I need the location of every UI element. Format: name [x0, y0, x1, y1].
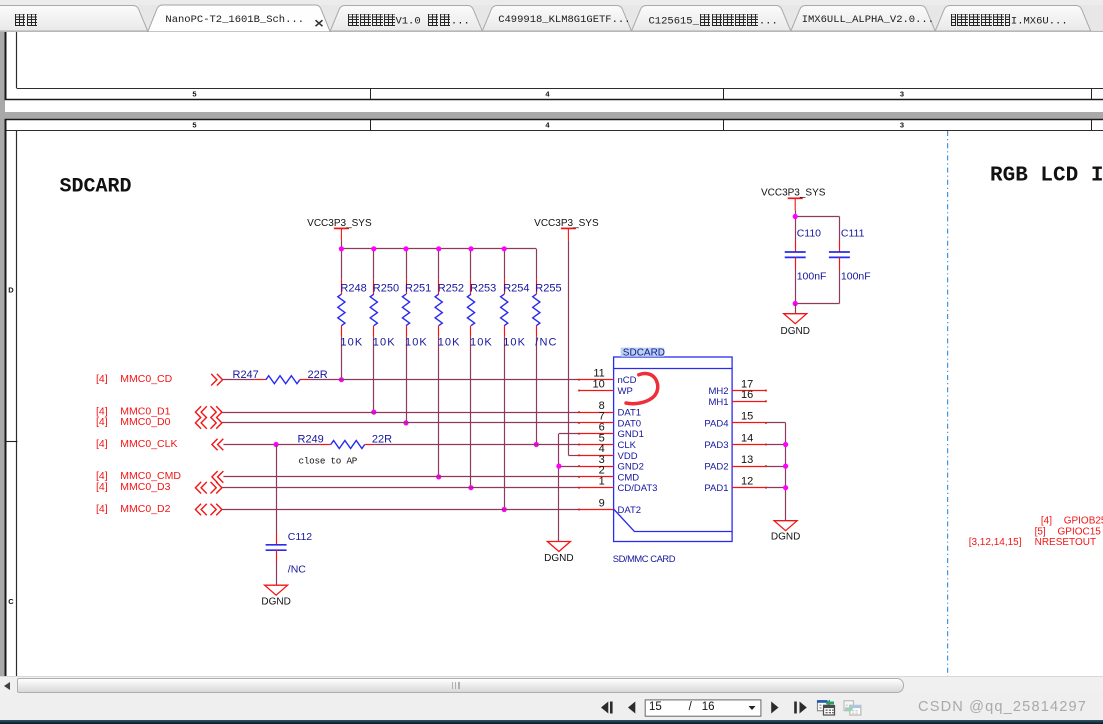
svg-text:R251: R251: [405, 282, 431, 294]
pin 17 MH2: [708, 378, 766, 397]
main sheet: left inner frame line: [16, 130, 18, 676]
svg-text:R248: R248: [340, 282, 366, 294]
power symbol VCC3P3_SYS (VDD feed): [534, 218, 599, 240]
junction MMC0_CLK / C112: [274, 442, 279, 447]
wire MMC0_CMD: [223, 476, 578, 478]
svg-text:[5]: [5]: [1035, 527, 1046, 538]
zone letter C: [8, 597, 14, 606]
svg-text:R253: R253: [470, 282, 496, 294]
net label [4] MMC0_CMD: [96, 470, 181, 482]
sheet section divider (blue dash-dot): [947, 131, 949, 676]
svg-text:RGB LCD Interface: RGB LCD Interface: [990, 165, 1103, 188]
svg-text:PAD3: PAD3: [704, 440, 728, 451]
svg-text:100nF: 100nF: [797, 271, 827, 283]
svg-text:MMC0_CLK: MMC0_CLK: [120, 438, 177, 450]
svg-text:R255: R255: [535, 282, 561, 294]
svg-text:10K: 10K: [438, 336, 461, 348]
svg-text:PAD1: PAD1: [704, 483, 728, 494]
net label [4] MMC0_CLK: [96, 438, 177, 450]
svg-text:GPIOB25: GPIOB25: [1064, 515, 1103, 526]
svg-text:[4]: [4]: [96, 481, 108, 493]
pin 13 PAD2: [704, 454, 766, 473]
junction R252 top: [436, 246, 441, 251]
svg-text:SDCARD: SDCARD: [623, 347, 665, 358]
svg-text:VCC3P3_SYS: VCC3P3_SYS: [307, 218, 372, 229]
pin 9 DAT2: [578, 497, 641, 516]
freehand red annotation near nCD/WP: [626, 374, 658, 404]
svg-text:[4]: [4]: [1041, 515, 1052, 526]
pin 11 nCD: [578, 368, 636, 387]
pin 15 PAD4: [704, 411, 766, 430]
wire MMC0_CD: [223, 379, 579, 381]
resistor R247 22R series: [233, 369, 328, 384]
svg-text:100nF: 100nF: [841, 271, 871, 283]
junction R250 top: [371, 246, 376, 251]
svg-text:C112: C112: [288, 531, 312, 543]
section title RGB LCD Interface (clipped): [990, 165, 1103, 188]
main sheet: top outer border line: [5, 119, 1103, 121]
svg-text:CD/DAT3: CD/DAT3: [618, 483, 658, 494]
capacitor C111 100nF: [829, 228, 871, 283]
main sheet: zone strip bottom / inner frame top line: [5, 130, 1103, 132]
svg-text:MMC0_CD: MMC0_CD: [120, 373, 172, 385]
svg-text:WP: WP: [618, 386, 633, 397]
sheet connector MMC0_D0: [195, 417, 222, 429]
svg-text:MMC0_D2: MMC0_D2: [120, 503, 170, 515]
wire VCC rail vertical: [341, 240, 343, 248]
part name SD/MMC CARD: [613, 553, 676, 564]
junction decoupling top: [793, 214, 798, 219]
net label [4] MMC0_D1: [96, 405, 171, 417]
svg-text:SDCARD: SDCARD: [60, 176, 132, 199]
svg-text:C110: C110: [797, 228, 821, 240]
svg-text:NRESETOUT: NRESETOUT: [1035, 537, 1097, 548]
wire MMC0_D0: [222, 422, 579, 424]
svg-text:DGND: DGND: [544, 553, 573, 564]
junction R254 bottom: [502, 507, 507, 512]
previous sheet: left outer border: [5, 31, 7, 100]
svg-text:10: 10: [593, 378, 605, 390]
section title SDCARD: [60, 176, 132, 199]
svg-text:9: 9: [599, 497, 605, 509]
svg-text:VCC3P3_SYS: VCC3P3_SYS: [761, 187, 826, 198]
capacitor C110 100nF: [785, 228, 827, 283]
previous sheet: left inner frame line: [16, 31, 18, 88]
junction R248 bottom: [339, 377, 344, 382]
svg-text:R249: R249: [298, 434, 324, 446]
svg-text:MMC0_D0: MMC0_D0: [120, 416, 170, 428]
svg-text:R250: R250: [373, 282, 399, 294]
sheet connector MMC0_CLK: [212, 439, 223, 451]
previous sheet zone numbers 5 4 3: [192, 90, 904, 99]
svg-text:13: 13: [741, 454, 753, 466]
capacitor C112 /NC: [266, 445, 313, 586]
junction R251 bottom: [403, 420, 408, 425]
svg-text:MMC0_D3: MMC0_D3: [120, 481, 170, 493]
main sheet zone numbers 5 4 3: [192, 121, 904, 130]
svg-text:SD/MMC CARD: SD/MMC CARD: [613, 553, 676, 564]
svg-text:DGND: DGND: [261, 597, 290, 608]
resistor R249 22R series: [298, 434, 393, 449]
pin 12 PAD1: [704, 476, 766, 495]
svg-text:[4]: [4]: [96, 416, 108, 428]
wire GND1/GND2 to DGND: [559, 434, 579, 542]
svg-text:10K: 10K: [373, 336, 396, 348]
junction PAD2: [783, 464, 788, 469]
junction GND2: [556, 464, 561, 469]
svg-text:[4]: [4]: [96, 503, 108, 515]
svg-text:DAT0: DAT0: [618, 418, 642, 429]
svg-text:3: 3: [900, 90, 904, 99]
pin 16 MH1: [708, 389, 766, 408]
pin 7 DAT0: [578, 411, 641, 430]
power symbol VCC3P3_SYS (decoupling): [761, 187, 826, 210]
svg-text:MH2: MH2: [708, 386, 728, 397]
main sheet zone dividers: [371, 120, 1092, 130]
svg-text:R247: R247: [233, 369, 259, 381]
svg-text:PAD4: PAD4: [704, 418, 728, 429]
junction R255 top: [0, 0, 1, 1]
wire PAD4-PAD1 to DGND: [766, 423, 786, 521]
svg-text:GPIOC15: GPIOC15: [1058, 527, 1102, 538]
svg-text:10K: 10K: [503, 336, 526, 348]
pin 14 PAD3: [704, 432, 766, 451]
junction PAD1: [783, 485, 788, 490]
junction PAD3: [783, 442, 788, 447]
resistor R252 10K pull-up: [435, 249, 464, 477]
junction R255 bottom: [534, 442, 539, 447]
resistor R251 10K pull-up: [402, 249, 431, 423]
sheet connector MMC0_CMD: [212, 471, 223, 483]
svg-text:4: 4: [545, 121, 550, 130]
svg-text:CMD: CMD: [618, 472, 640, 483]
svg-text:D: D: [8, 286, 14, 295]
svg-text:DGND: DGND: [771, 532, 800, 543]
resistor R248 10K pull-up: [338, 249, 367, 380]
svg-text:close to AP: close to AP: [299, 455, 358, 466]
sheet connector MMC0_D1: [195, 406, 222, 418]
svg-text:22R: 22R: [308, 369, 328, 381]
net label [4] MMC0_D3: [96, 481, 171, 493]
svg-text:3: 3: [900, 121, 904, 130]
previous sheet: outer border bottom line: [5, 99, 1103, 101]
svg-text:4: 4: [545, 90, 550, 99]
svg-text:10K: 10K: [405, 336, 428, 348]
pin 4 VDD: [578, 443, 637, 462]
svg-text:CLK: CLK: [618, 440, 637, 451]
net label [4] MMC0_CD: [96, 373, 173, 385]
svg-text:R254: R254: [503, 282, 529, 294]
previous sheet: inner frame bottom line: [17, 88, 1103, 90]
ground DGND (C112): [261, 585, 290, 607]
svg-text:10K: 10K: [470, 336, 493, 348]
connector J SDCARD outline: [614, 357, 733, 542]
pin 5 CLK: [578, 432, 636, 451]
svg-text:5: 5: [192, 90, 196, 99]
svg-text:/NC: /NC: [288, 563, 307, 575]
svg-text:MH1: MH1: [708, 397, 728, 408]
svg-text:10K: 10K: [340, 336, 363, 348]
junction R251 top: [403, 246, 408, 251]
svg-text:DAT2: DAT2: [618, 505, 642, 516]
ground DGND (decoupling): [780, 304, 809, 337]
junction R250 bottom: [371, 410, 376, 415]
svg-text:nCD: nCD: [618, 375, 637, 386]
wire VDD feed vertical: [568, 240, 578, 455]
svg-text:1: 1: [599, 476, 605, 488]
ground DGND (connector): [544, 542, 573, 565]
svg-text:[4]: [4]: [96, 438, 108, 450]
wire MMC0_D1: [222, 412, 579, 414]
svg-text:16: 16: [741, 389, 753, 401]
pin 10 WP: [578, 378, 633, 397]
zone letter D: [8, 286, 14, 295]
svg-text:GND1: GND1: [618, 429, 644, 440]
resistor R250 10K pull-up: [370, 249, 399, 412]
svg-text:C: C: [8, 597, 14, 606]
resistor R254 10K pull-up: [501, 249, 530, 510]
junction R248 top: [339, 246, 344, 251]
svg-text:VDD: VDD: [618, 451, 638, 462]
svg-text:DGND: DGND: [780, 326, 809, 337]
wire MMC0_CLK: [223, 444, 578, 446]
note close to AP: [299, 455, 358, 466]
net label [4] MMC0_D2: [96, 503, 171, 515]
main sheet: left zone divider tick: [5, 441, 18, 443]
pin 1 CD/DAT3: [578, 476, 657, 495]
ground DGND (PAD): [771, 521, 800, 543]
power symbol VCC3P3_SYS (pull-up rail): [307, 218, 372, 240]
svg-text:VCC3P3_SYS: VCC3P3_SYS: [534, 218, 599, 229]
svg-text:/NC: /NC: [535, 336, 557, 348]
svg-text:DAT1: DAT1: [618, 408, 642, 419]
wire decoupling loop: [795, 210, 839, 303]
sheet connector MMC0_D2: [195, 504, 222, 516]
import icon (disabled): [844, 701, 861, 715]
sheet connector MMC0_CD: [211, 374, 222, 386]
svg-text:GND2: GND2: [618, 462, 644, 473]
svg-text:5: 5: [192, 121, 196, 130]
pin 8 DAT1: [578, 400, 641, 419]
junction R253 top: [468, 246, 473, 251]
wire MMC0_D2: [222, 509, 579, 511]
resistor R253 10K pull-up: [467, 249, 496, 488]
export icon (enabled): [817, 700, 835, 716]
net label [4] GPIOB25: [1041, 515, 1103, 526]
wire pull-up bus horizontal: [341, 248, 536, 250]
pin 2 CMD: [578, 465, 639, 484]
net label [3,12,14,15] NRESETOUT: [969, 537, 1096, 548]
wire MMC0_D3: [222, 487, 579, 489]
svg-text:15: 15: [741, 411, 753, 423]
svg-text:C111: C111: [841, 228, 865, 240]
resistor R255 /NC pull-up: [533, 249, 562, 445]
junction R252 bottom: [436, 474, 441, 479]
pin 6 GND1: [578, 422, 644, 441]
junction R254 top: [502, 246, 507, 251]
refdes SDCARD (highlighted): [621, 347, 665, 358]
svg-text:[4]: [4]: [96, 373, 108, 385]
net label [4] MMC0_D0: [96, 416, 171, 428]
svg-text:PAD2: PAD2: [704, 462, 728, 473]
svg-text:[3,12,14,15]: [3,12,14,15]: [969, 537, 1022, 548]
svg-text:R252: R252: [438, 282, 464, 294]
svg-text:22R: 22R: [372, 434, 392, 446]
main sheet: left outer border: [5, 120, 7, 676]
junction decoupling bottom: [793, 301, 798, 306]
svg-text:12: 12: [741, 476, 753, 488]
previous sheet zone dividers: [371, 88, 1092, 99]
svg-text:14: 14: [741, 432, 753, 444]
net label [5] GPIOC15: [1035, 527, 1102, 538]
junction R253 bottom: [468, 485, 473, 490]
pin 3 GND2: [578, 454, 644, 473]
sheet connector MMC0_D3: [195, 482, 222, 494]
